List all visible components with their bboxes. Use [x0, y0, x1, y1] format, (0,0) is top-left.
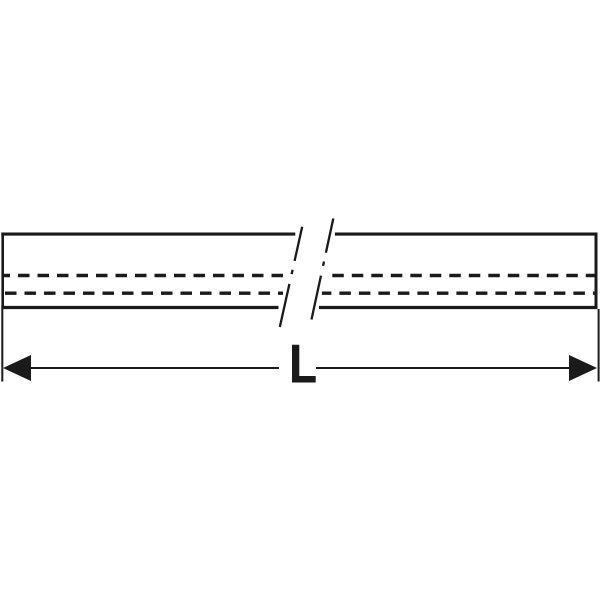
upper hidden thread line (left segment, dashed)	[3, 274, 286, 277]
break line (right, dash-dot slant)	[312, 219, 334, 320]
rod top edge (left segment)	[1, 233, 295, 236]
rod right end edge	[595, 233, 598, 309]
break line (left, dash-dot slant)	[280, 227, 302, 327]
rod bottom edge (left segment)	[1, 306, 278, 309]
upper hidden thread line (right segment, dashed)	[332, 274, 595, 277]
left arrowhead	[3, 355, 31, 381]
lower hidden thread line (right segment, dashed)	[322, 292, 595, 295]
dimension line (left segment)	[28, 367, 279, 369]
left extension line	[1, 309, 3, 382]
rod left end edge	[1, 233, 4, 309]
lower hidden thread line (left segment, dashed)	[3, 292, 284, 295]
dimension label L	[292, 345, 316, 383]
right extension line	[598, 309, 600, 382]
dimension line (right segment)	[316, 367, 572, 369]
rod top edge (right segment)	[335, 233, 598, 236]
right arrowhead	[569, 355, 597, 381]
rod bottom edge (right segment)	[319, 306, 598, 309]
